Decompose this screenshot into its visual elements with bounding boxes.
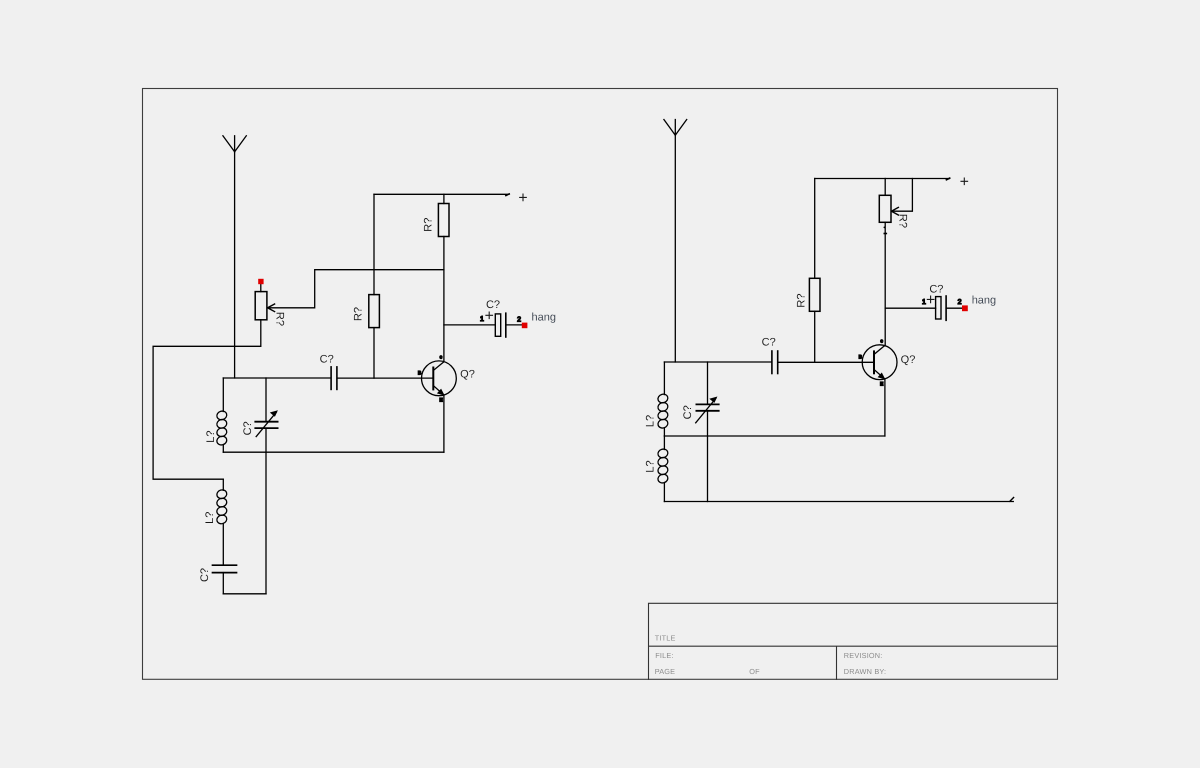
svg-text:C?: C? bbox=[929, 283, 943, 295]
power rail end tick (right) bbox=[946, 178, 949, 180]
transistor Q? (right) bbox=[862, 345, 897, 380]
label + supply (left) bbox=[520, 194, 527, 201]
no-connect marker (red) right output bbox=[962, 305, 968, 311]
wire pot bottom / collector line (right) bbox=[884, 222, 886, 346]
svg-text:R?: R? bbox=[897, 214, 909, 228]
svg-text:C?: C? bbox=[486, 299, 500, 311]
svg-text:Q?: Q? bbox=[901, 354, 916, 366]
wire antenna lead down to tank top node (right) bbox=[674, 135, 676, 362]
wire pot wiper to collector net bbox=[268, 270, 444, 308]
variable capacitor C? (left tuning) bbox=[255, 378, 278, 452]
wire tank mid rail to emitter (right) bbox=[664, 435, 885, 437]
antenna AE1 (right) bbox=[664, 120, 687, 136]
variable capacitor C? (right tuning) bbox=[696, 362, 719, 502]
svg-text:R?: R? bbox=[352, 307, 364, 321]
wire tank top rail (left) bbox=[223, 377, 330, 379]
svg-text:TITLE: TITLE bbox=[655, 633, 676, 642]
svg-text:C?: C? bbox=[199, 568, 211, 582]
antenna AE1 (left) bbox=[223, 136, 246, 152]
svg-text:hang: hang bbox=[972, 295, 996, 307]
svg-text:FILE:: FILE: bbox=[655, 651, 673, 660]
svg-text:1: 1 bbox=[922, 299, 926, 306]
no-connect marker (red) on potentiometer top pin bbox=[258, 279, 263, 284]
svg-text:C?: C? bbox=[242, 421, 254, 435]
capacitor C? (left trap) bbox=[213, 565, 237, 594]
svg-text:L?: L? bbox=[644, 460, 656, 472]
svg-text:OF: OF bbox=[749, 667, 760, 676]
svg-text:L?: L? bbox=[205, 430, 217, 442]
wire emitter to mid rail (right) bbox=[884, 379, 886, 436]
svg-text:L?: L? bbox=[204, 512, 216, 524]
wire tuning cap node down to trap branch bbox=[265, 452, 267, 594]
transistor Q? (left) bbox=[422, 361, 457, 396]
svg-text:DRAWN BY:: DRAWN BY: bbox=[844, 667, 886, 676]
wire antenna lead down to tank top node bbox=[234, 152, 236, 378]
svg-text:R?: R? bbox=[796, 294, 808, 308]
svg-text:Q?: Q? bbox=[460, 369, 475, 381]
svg-text:2: 2 bbox=[958, 299, 962, 306]
capacitor C? (right coupling) bbox=[772, 351, 778, 374]
svg-text:PAGE: PAGE bbox=[655, 667, 676, 676]
potentiometer R? (right) bbox=[879, 179, 898, 223]
wire V+ power rail (left) bbox=[374, 193, 509, 195]
svg-text:REVISION:: REVISION: bbox=[844, 651, 883, 660]
svg-text:C?: C? bbox=[762, 337, 776, 349]
resistor R? (right base bias) bbox=[809, 179, 820, 363]
wire coupling cap to base bbox=[338, 377, 434, 379]
svg-text:R?: R? bbox=[423, 218, 435, 232]
label + supply (right) bbox=[961, 178, 968, 185]
title block outline bbox=[649, 603, 1058, 679]
capacitor C? (left coupling) bbox=[331, 367, 337, 390]
wire pot bottom to L? top (left loop wire) bbox=[153, 320, 261, 479]
potentiometer R? (left) bbox=[255, 285, 274, 320]
no-connect marker (red) left output bbox=[522, 323, 528, 329]
inductor L? (left trap coil) bbox=[216, 479, 228, 564]
pot bottom pin tick marks bbox=[884, 227, 888, 235]
svg-text:1: 1 bbox=[480, 316, 484, 323]
svg-text:C?: C? bbox=[682, 405, 694, 419]
wire tank bottom rail (left) bbox=[223, 451, 444, 453]
wire bottom rail (right) bbox=[664, 501, 1013, 503]
wire tank top rail (right) bbox=[664, 361, 771, 363]
electrolytic capacitor C? (left output) bbox=[495, 313, 522, 337]
svg-text:2: 2 bbox=[517, 316, 521, 323]
wire trap bottom to tuning node bbox=[223, 593, 266, 595]
drawing frame border bbox=[143, 89, 1058, 680]
wire V+ power rail (right) bbox=[815, 178, 950, 180]
bottom rail end tick (right) bbox=[1010, 498, 1014, 502]
electrolytic capacitor C? (right output) bbox=[936, 296, 962, 320]
wire collector line (left) bbox=[443, 237, 445, 362]
power rail end tick (left) bbox=[506, 194, 509, 196]
inductor L? (right lower coil) bbox=[657, 436, 669, 502]
inductor L? (right upper coil) bbox=[657, 362, 669, 436]
svg-text:C?: C? bbox=[320, 354, 334, 366]
wire emitter to tank bottom (left) bbox=[443, 395, 445, 452]
wire coupling cap to base (right) bbox=[778, 361, 874, 363]
svg-text:L?: L? bbox=[644, 415, 656, 427]
resistor R? (left base bias) bbox=[369, 194, 380, 378]
resistor R? (left collector load) bbox=[438, 194, 449, 236]
svg-text:hang: hang bbox=[532, 311, 556, 323]
polarity + (right output cap) bbox=[927, 296, 934, 303]
inductor L? (left antenna coil) bbox=[216, 378, 228, 452]
svg-text:R?: R? bbox=[273, 312, 285, 326]
polarity + (left output cap) bbox=[486, 312, 493, 319]
wire pot wiper to V+ (right) bbox=[891, 179, 912, 212]
wire collector to output capacitor (left) bbox=[444, 324, 495, 326]
wire collector to output capacitor (right) bbox=[885, 307, 935, 309]
